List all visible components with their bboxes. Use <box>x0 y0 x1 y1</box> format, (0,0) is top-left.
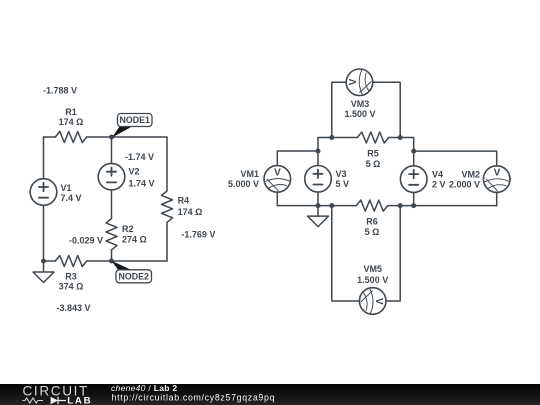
node junction dot VM5 left top <box>329 203 334 208</box>
svg-text:2.000 V: 2.000 V <box>449 180 480 190</box>
wire bottom lead R3 left <box>44 260 56 262</box>
logo resistor zigzag <box>23 398 44 403</box>
voltmeter VM1 <box>264 166 291 193</box>
voltmeter VM2 <box>483 166 510 193</box>
svg-text:1.500 V: 1.500 V <box>357 275 388 285</box>
svg-text:V: V <box>494 168 501 179</box>
wire VM3 left <box>332 82 360 137</box>
svg-text:V: V <box>274 168 281 179</box>
svg-text:V1: V1 <box>61 183 72 193</box>
voltage source V2 <box>98 163 125 190</box>
svg-text:VM3: VM3 <box>351 99 370 109</box>
node junction dot top bus left <box>329 135 334 140</box>
svg-text:5.000 V: 5.000 V <box>228 179 259 189</box>
logo diode <box>51 397 66 405</box>
wire top lead R1 left <box>44 136 56 138</box>
voltage source V1 <box>30 179 57 206</box>
node junction dot V3 top <box>316 149 321 154</box>
voltmeter VM5 <box>359 288 386 315</box>
node junction dot NODE2 <box>109 259 114 264</box>
wire R4 branch lower <box>166 222 168 261</box>
node label NODE1 <box>112 114 152 138</box>
svg-text:V: V <box>348 78 359 85</box>
footer bar <box>0 384 540 405</box>
resistor R2 <box>106 219 117 250</box>
svg-text:1.74 V: 1.74 V <box>129 179 155 189</box>
svg-text:-1.788 V: -1.788 V <box>43 85 77 95</box>
wire VM1 top <box>277 151 318 206</box>
svg-text:V2: V2 <box>129 167 140 177</box>
wire V4 branch <box>413 138 415 206</box>
resistor R4 <box>162 191 173 222</box>
svg-text:NODE1: NODE1 <box>120 115 150 125</box>
svg-text:-1.74 V: -1.74 V <box>125 152 154 162</box>
wire VM5 right <box>373 206 401 301</box>
wire V3 branch <box>317 138 319 206</box>
svg-text:VM1: VM1 <box>240 169 259 179</box>
node junction dot ground-left <box>41 259 46 264</box>
ground left <box>33 261 54 283</box>
wire VM5 left <box>332 206 373 301</box>
svg-text:R6: R6 <box>366 217 378 227</box>
wire VM2 branch <box>414 151 497 206</box>
svg-text:R2: R2 <box>122 224 134 234</box>
svg-text:R1: R1 <box>65 107 77 117</box>
wire left branch V1 <box>43 137 45 261</box>
svg-text:V: V <box>373 298 384 305</box>
svg-text:5 Ω: 5 Ω <box>365 227 380 237</box>
wire right top bus right <box>389 137 414 139</box>
svg-text:http://circuitlab.com/cy8z57gq: http://circuitlab.com/cy8z57gqza9pq <box>112 392 276 402</box>
node junction dot V4 bottom <box>411 203 416 208</box>
resistor R6 <box>356 200 387 211</box>
wire V2 branch upper <box>111 137 113 219</box>
svg-text:274 Ω: 274 Ω <box>122 234 147 244</box>
node junction dot NODE1 <box>109 135 114 140</box>
wire bottom bus left <box>277 205 356 207</box>
voltmeter VM3 <box>346 69 373 96</box>
svg-text:7.4 V: 7.4 V <box>61 193 82 203</box>
wire bottom R3 right <box>87 260 167 262</box>
node label NODE2 <box>112 261 152 283</box>
wire right top bus left <box>318 137 357 139</box>
wire bottom bus right <box>388 205 497 207</box>
svg-text:R4: R4 <box>178 195 190 205</box>
svg-text:-0.029 V: -0.029 V <box>69 235 103 245</box>
svg-text:5 V: 5 V <box>336 179 350 189</box>
wire VM3 right <box>360 82 401 137</box>
node junction dot V4 top <box>411 149 416 154</box>
svg-text:1.500 V: 1.500 V <box>344 109 375 119</box>
svg-text:VM5: VM5 <box>363 264 382 274</box>
svg-text:R3: R3 <box>65 271 77 281</box>
resistor R5 <box>357 132 388 143</box>
svg-text:174 Ω: 174 Ω <box>178 207 203 217</box>
node junction dot V3 bottom <box>316 203 321 208</box>
node junction dot top bus right <box>398 135 403 140</box>
svg-text:174 Ω: 174 Ω <box>59 117 84 127</box>
wire R4 branch upper <box>166 137 168 191</box>
svg-text:VM2: VM2 <box>461 170 480 180</box>
node junction dot VM5 right top <box>398 203 403 208</box>
svg-text:LAB: LAB <box>67 396 92 405</box>
svg-text:V4: V4 <box>432 170 443 180</box>
svg-text:NODE2: NODE2 <box>119 272 149 282</box>
svg-text:V3: V3 <box>336 169 347 179</box>
voltage source V4 <box>400 166 427 193</box>
svg-text:R5: R5 <box>367 149 379 159</box>
svg-text:-3.843 V: -3.843 V <box>56 303 90 313</box>
resistor R1 <box>55 132 86 143</box>
voltage source V3 <box>305 166 332 193</box>
svg-text:-1.769 V: -1.769 V <box>181 230 215 240</box>
ground right <box>308 206 329 227</box>
wire top R1 right to corner <box>87 136 167 138</box>
svg-text:2 V: 2 V <box>432 180 446 190</box>
wire V2 branch lower <box>111 250 113 261</box>
svg-text:374 Ω: 374 Ω <box>59 282 84 292</box>
resistor R3 <box>55 256 86 267</box>
svg-text:5 Ω: 5 Ω <box>366 159 381 169</box>
